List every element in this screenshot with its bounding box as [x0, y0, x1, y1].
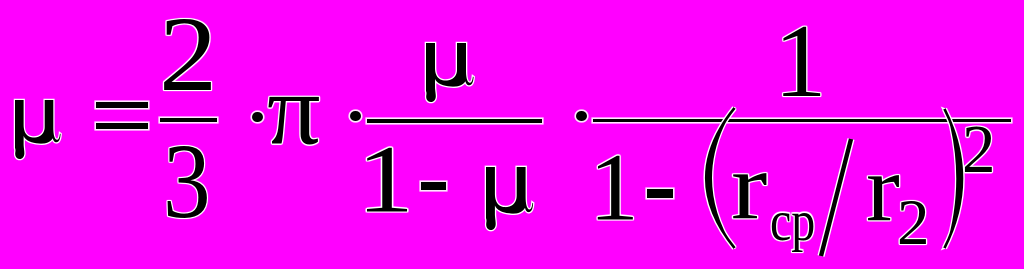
- denominator 1 (right fraction): [589, 139, 639, 236]
- multiplication dot 3: [576, 111, 587, 121]
- denominator 3: [163, 129, 211, 236]
- numerator mu: [426, 43, 486, 118]
- opening parenthesis of (r_cp/r_2): [706, 108, 734, 248]
- subscript cp: [770, 193, 815, 251]
- minus sign (left fraction): [421, 182, 446, 191]
- greek letter mu (left-hand side): [15, 100, 75, 175]
- numerator 1 (right fraction): [774, 8, 827, 113]
- r with subscript cp: [731, 139, 767, 234]
- subscript 2: [897, 191, 930, 256]
- division slash: [821, 139, 851, 256]
- pi: [267, 59, 321, 161]
- r with subscript 2: [866, 141, 900, 236]
- equals sign top bar: [96, 102, 148, 108]
- fraction bar 2/3: [160, 118, 217, 122]
- equals sign bottom bar: [96, 123, 148, 129]
- minus sign (right fraction): [647, 189, 673, 198]
- multiplication dot 2: [350, 111, 361, 121]
- multiplication dot 1: [252, 112, 263, 122]
- denominator 1 (left fraction): [357, 131, 414, 228]
- numerator 2: [159, 2, 217, 109]
- fraction bar right: [593, 119, 1011, 123]
- closing parenthesis of (r_cp/r_2): [945, 109, 963, 248]
- fraction bar mu/(1-mu): [367, 119, 542, 123]
- denominator mu: [486, 167, 546, 242]
- exponent 2: [962, 116, 996, 184]
